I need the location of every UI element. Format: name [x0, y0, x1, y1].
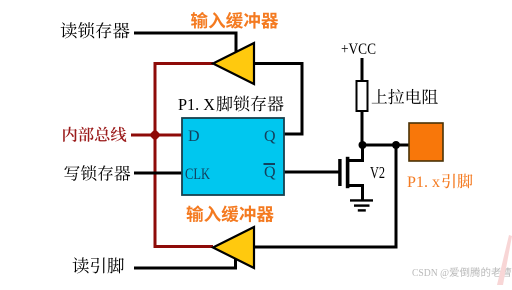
label: internal bus: [63, 127, 126, 142]
wire: resistor to drain node: [361, 111, 364, 145]
pad: P1.x pin square: [409, 123, 443, 161]
wire: +VCC down to pull-up resistor: [361, 58, 364, 81]
svg-text:P1. X: P1. X: [178, 95, 215, 114]
watermark CJK part: [449, 267, 511, 277]
wire: latch Qbar output to V2 gate: [284, 171, 339, 174]
transistor V2: FET channel bar: [346, 157, 350, 188]
svg-text:Q: Q: [264, 164, 276, 181]
svg-text:CLK: CLK: [185, 166, 210, 183]
wire: read-pin control to bottom buffer enable: [134, 259, 236, 268]
label: latch title CJK part: [217, 96, 284, 112]
wire: read-latch control to top buffer enable: [134, 33, 236, 52]
wire: pin node down and left to bottom buffer input: [252, 145, 396, 247]
buffer U1: top input buffer triangle: [213, 43, 254, 84]
wire: drain node to P1.x pin pad: [362, 144, 409, 147]
wire: internal bus to latch D input: [131, 134, 182, 137]
wire: V2 source lead to ground: [348, 186, 363, 200]
label: read pin: [73, 257, 124, 273]
wire: write-latch control to CLK input: [134, 172, 182, 175]
wire: latch Q output up to top buffer input: [254, 64, 302, 135]
label: read latch (du suo cun qi): [61, 22, 130, 38]
resistor: pull-up resistor body: [357, 81, 368, 111]
watermark: red swoosh: [497, 235, 512, 285]
node: pin junction dot: [392, 141, 400, 149]
node: drain junction dot: [359, 141, 367, 149]
svg-text:P1. x: P1. x: [407, 174, 440, 191]
wire: V2 drain lead: [348, 144, 363, 161]
label: write latch: [64, 165, 130, 181]
ground symbol: [350, 199, 373, 201]
svg-text:D: D: [188, 128, 200, 145]
svg-text:V2: V2: [370, 163, 385, 182]
wire: internal bus vertical linking both buffer outputs: [155, 64, 213, 247]
svg-text:CSDN @: CSDN @: [412, 268, 449, 279]
svg-text:+VCC: +VCC: [341, 41, 376, 58]
svg-text:Q: Q: [264, 128, 276, 145]
node: internal bus junction (diamond): [149, 129, 161, 141]
transistor V2: FET gate bar: [338, 159, 341, 186]
latch: P1.X pin latch box: [182, 118, 284, 195]
label: pull-up resistor: [372, 89, 438, 104]
label: input buffer (bottom): [187, 205, 274, 222]
label: P1.x pin (CJK part): [442, 174, 472, 189]
label: input buffer (top): [191, 12, 278, 29]
buffer U2: bottom input buffer triangle: [213, 227, 254, 268]
